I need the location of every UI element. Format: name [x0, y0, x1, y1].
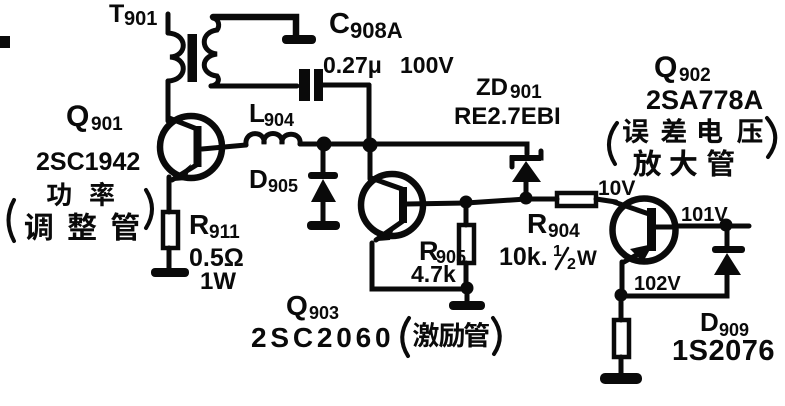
node B junction dot [363, 138, 378, 153]
node G junction dot [615, 289, 628, 302]
node E junction dot [461, 282, 474, 295]
svg-text:2SC1942: 2SC1942 [36, 148, 140, 176]
wire: R905 to node E [464, 263, 469, 289]
transistor Q903 base bar [399, 187, 407, 223]
svg-text:L: L [249, 98, 265, 128]
wire: Q901 emitter down to R911 [167, 177, 172, 212]
wire: D905 anode to ground [321, 202, 326, 222]
transistor Q902 body [613, 199, 676, 262]
node C junction dot [520, 192, 533, 205]
wire: secondary bottom to C908A [211, 84, 297, 89]
svg-text:10V: 10V [598, 177, 635, 200]
wire: node C to R904 [526, 197, 557, 202]
transistor Q902 emitter stroke [624, 248, 649, 262]
wire: C908A right plate to corner [323, 83, 369, 88]
svg-text:2SA778A: 2SA778A [646, 85, 763, 115]
annotation parenthesis right (Q901 block) [146, 190, 152, 228]
transistor Q903 emitter arrow [374, 225, 395, 242]
svg-text:908A: 908A [350, 18, 403, 43]
inductor L904 [246, 134, 300, 146]
svg-text:0.27μ: 0.27μ [323, 52, 382, 78]
wire: ZD901 anode to node C [524, 182, 529, 193]
svg-text:1S2076: 1S2076 [672, 335, 775, 367]
wire: Q903 emitter down and right to node E [372, 243, 467, 289]
wire: node D down to R905 [464, 207, 469, 225]
capacitor C908A plates [299, 69, 323, 101]
zener ZD901 anode triangle [512, 161, 541, 182]
transistor Q901 collector stroke [169, 118, 197, 129]
annotation 放大管 (amplifier tube) [633, 149, 734, 177]
wire: node A down to D905 [321, 151, 326, 172]
svg-text:902: 902 [679, 65, 711, 86]
scan artifact blob at left edge [0, 36, 10, 48]
ground (below Q902 emitter resistor) [600, 373, 642, 384]
annotation parenthesis left (Q903 line) [402, 318, 409, 356]
svg-text:D: D [700, 307, 719, 337]
wire: node F down to D909 [725, 230, 730, 247]
transistor Q903 collector stroke [371, 178, 402, 189]
wire: node G down to emitter resistor [619, 300, 624, 320]
wire: emitter resistor to ground [619, 357, 624, 374]
svg-text:904: 904 [548, 221, 580, 242]
transistor Q902 collector stroke [656, 225, 676, 230]
svg-text:D: D [249, 164, 268, 194]
svg-text:911: 911 [209, 222, 240, 243]
node A junction dot [317, 137, 332, 152]
transformer T901 core [188, 34, 198, 82]
wire: node A to node B [324, 142, 370, 147]
wire: node D to node C [466, 199, 526, 203]
svg-text:1: 1 [553, 243, 562, 260]
transistor Q901 body [160, 116, 222, 178]
transistor Q903 body [361, 174, 423, 236]
svg-text:W: W [577, 247, 597, 270]
svg-text:4.7k: 4.7k [411, 261, 456, 287]
svg-text:101V: 101V [681, 204, 728, 226]
svg-text:2: 2 [567, 256, 576, 273]
svg-text:Q: Q [654, 51, 677, 84]
ground (below R911) [151, 268, 189, 277]
annotation parenthesis left (Q902 block) [609, 123, 617, 164]
svg-text:Q: Q [66, 100, 89, 133]
svg-text:1W: 1W [200, 268, 236, 295]
wire: R911 to ground [167, 248, 172, 270]
resistor R911 body [163, 212, 178, 248]
wire: D909 anode down and left to node G [621, 275, 727, 296]
svg-text:2SC2060: 2SC2060 [251, 322, 394, 353]
annotation parenthesis right (Q902 block) [767, 118, 775, 157]
wire: corner down to node B [367, 85, 372, 141]
svg-text:Q: Q [286, 290, 308, 321]
wire: Q901 base to L904 [202, 145, 246, 149]
diode D905 anode triangle [311, 179, 336, 202]
svg-text:905: 905 [268, 176, 298, 196]
node F junction dot [720, 219, 733, 232]
wire: R904 to Q902 base [596, 199, 616, 202]
annotation 功率 (power) [47, 182, 114, 207]
svg-text:T: T [109, 0, 124, 28]
resistor R905 body [459, 225, 474, 263]
transistor Q901 emitter arrow [170, 164, 191, 182]
svg-text:904: 904 [264, 110, 294, 130]
svg-text:901: 901 [91, 114, 123, 135]
wire: node B down to Q903 collector [368, 150, 373, 179]
diode D909 cathode bar [712, 246, 745, 253]
transformer T901 secondary winding [204, 18, 218, 86]
wire: node B to ZD901 corner [370, 144, 527, 154]
diode D909 anode triangle [714, 253, 741, 275]
fraction slash of 1/2W [556, 248, 568, 269]
resistor R904 body [557, 193, 596, 206]
wire: L904 to node A [300, 142, 324, 147]
svg-text:ZD: ZD [476, 74, 508, 101]
svg-text:RE2.7EBI: RE2.7EBI [454, 103, 561, 130]
wire: Q902 emitter down to node G [620, 262, 625, 295]
svg-text:102V: 102V [634, 273, 681, 295]
annotation 调整管 (regulator tube) [25, 212, 139, 240]
svg-text:100V: 100V [400, 52, 454, 78]
transistor Q901 base bar [194, 126, 202, 167]
svg-text:R: R [527, 208, 547, 239]
wire: node E to ground [465, 292, 470, 302]
transistor Q902 base-in stroke [614, 202, 649, 214]
annotation parenthesis right (Q903 line) [493, 318, 500, 354]
resistor (Q902 emitter) body [614, 320, 629, 357]
svg-text:901: 901 [510, 82, 542, 103]
zener ZD901 cathode bar with hooks [512, 151, 541, 167]
annotation parenthesis left (Q901 block) [9, 200, 15, 241]
transistor Q903 emitter stroke [376, 221, 403, 240]
svg-text:903: 903 [309, 303, 339, 323]
wire: Q902 collector to node F and stub [676, 224, 749, 229]
ground (below R905) [449, 301, 485, 310]
annotation 误差电压 (error voltage) [623, 118, 763, 144]
diode D905 cathode bar [308, 172, 338, 179]
ground (below D905) [307, 221, 340, 230]
chassis terminal bar (C908A branch) [282, 35, 316, 44]
wire: transformer primary top stub [166, 14, 171, 33]
transistor Q902 base bar [647, 208, 656, 251]
transistor Q902 emitter arrow (PNP) [630, 244, 653, 262]
wire: secondary top to chassis stub [213, 17, 296, 35]
annotation 激励管 (driver tube) [413, 322, 489, 348]
transformer T901 primary winding [168, 33, 183, 81]
svg-text:901: 901 [124, 8, 157, 30]
svg-text:R: R [189, 209, 209, 240]
svg-text:10k.: 10k. [499, 243, 548, 271]
node D junction dot [460, 196, 473, 209]
wire: primary bottom down to Q901 collector [166, 81, 171, 121]
transistor Q901 emitter stroke [172, 164, 198, 180]
wire: Q903 base to node D [407, 203, 466, 204]
svg-text:C: C [329, 8, 350, 40]
